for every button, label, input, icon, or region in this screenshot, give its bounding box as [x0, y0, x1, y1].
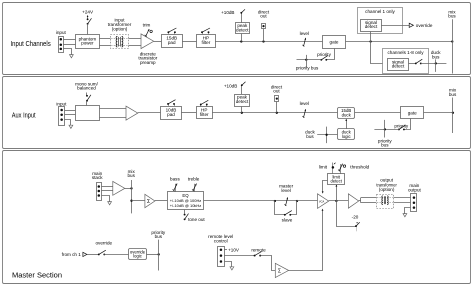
node priority bus junction aux	[384, 128, 386, 130]
svg-text:filter: filter	[200, 112, 209, 117]
svg-text:out: out	[260, 13, 267, 18]
wire J2 pin1 to sum block	[65, 110, 76, 112]
tone out switch	[184, 210, 186, 214]
op-amp discrete transistor preamp	[141, 34, 154, 49]
wire pad to HP filter	[182, 41, 197, 43]
ground input channel	[70, 55, 74, 58]
wire gate to mix bus	[346, 41, 453, 43]
svg-text:level: level	[300, 101, 309, 106]
wire tap to signal detect ch1	[370, 31, 372, 41]
wire J3 pin1 to stack amp	[101, 186, 112, 188]
wire tap to direct out	[263, 29, 265, 42]
node signal detect tap	[369, 40, 371, 42]
wire gate to mix bus aux	[424, 112, 453, 114]
wire HP filter to 15dB duck	[212, 112, 337, 114]
svg-text:bus: bus	[432, 55, 440, 60]
wire J2 pin2 to sum block	[65, 114, 76, 116]
wire aux amp to 10dB pad	[138, 112, 161, 114]
limit detect block	[328, 174, 345, 185]
ground remote	[230, 267, 234, 270]
svg-text:output: output	[408, 187, 421, 192]
wire stack amp to mix bus	[125, 188, 132, 190]
threshold pot	[340, 164, 342, 174]
svg-text:Aux Input: Aux Input	[12, 112, 36, 119]
op-amp VCA U11	[318, 194, 329, 209]
svg-text:override: override	[416, 23, 433, 28]
svg-text:channel 1 only: channel 1 only	[365, 9, 395, 14]
op-amp main stack amp	[113, 181, 125, 195]
wire override logic to priority bus	[146, 254, 158, 256]
wire +24V to phantom power	[87, 24, 89, 35]
wire priority switch to priority bus	[297, 59, 322, 61]
10dB pad block aux	[161, 107, 182, 120]
gate block channel	[323, 36, 346, 49]
svg-text:pad: pad	[167, 112, 175, 117]
wire tap to peak detect aux	[241, 106, 243, 113]
wire tap to direct out aux	[276, 101, 278, 112]
svg-text:+/-10dB @ 10kHz: +/-10dB @ 10kHz	[170, 203, 202, 208]
switch HP filter bypass	[202, 32, 204, 34]
svg-text:trim: trim	[143, 23, 151, 28]
priority bus channel	[306, 55, 308, 67]
peak detect block channel	[236, 23, 250, 34]
wire tap to limit detect	[336, 185, 338, 201]
sum block aux	[76, 106, 100, 121]
op-amp output buffer	[348, 194, 358, 208]
node priority bus junction	[305, 59, 307, 61]
node mix bus junction aux	[452, 112, 454, 114]
buffer override out	[409, 23, 413, 27]
override logic block	[129, 249, 147, 260]
svg-text:filter: filter	[202, 40, 211, 45]
peak detect block aux	[235, 95, 250, 107]
switch slave	[284, 214, 286, 216]
svg-text:pad: pad	[168, 40, 176, 45]
node direct out tap	[262, 40, 264, 42]
wire J5 pin1 +10V	[224, 249, 227, 251]
svg-text:bus: bus	[127, 173, 135, 178]
15dB duck block	[338, 108, 355, 119]
svg-text:gate: gate	[408, 111, 417, 116]
svg-text:+10dB: +10dB	[221, 10, 234, 15]
wire J2 pin3 to ground	[65, 120, 71, 126]
svg-text:input: input	[56, 30, 67, 35]
HP filter block	[197, 35, 216, 48]
wire priority switch to priority bus aux	[374, 129, 399, 131]
svg-text:slave: slave	[282, 217, 293, 222]
wire peak detect to +10dB switch	[241, 13, 243, 23]
svg-text:out: out	[273, 89, 280, 94]
aux input section frame	[3, 77, 471, 149]
svg-text:logic: logic	[133, 254, 142, 259]
wire signal detect to duck switch	[409, 63, 416, 65]
svg-text:duck: duck	[342, 112, 352, 117]
ground main output	[403, 214, 407, 217]
svg-text:threshold: threshold	[350, 164, 369, 169]
svg-text:level: level	[300, 31, 309, 36]
svg-text:bus: bus	[449, 92, 457, 97]
svg-text:detect: detect	[236, 27, 249, 32]
svg-text:detect: detect	[236, 99, 249, 104]
svg-text:input: input	[56, 102, 67, 107]
master section frame	[3, 151, 471, 284]
svg-text:detect: detect	[365, 24, 378, 29]
wire remote amp to VCA control	[289, 210, 323, 271]
svg-text:bus: bus	[306, 134, 314, 139]
wire peak detect to +10dB switch aux	[241, 85, 243, 94]
svg-text:Σ: Σ	[147, 199, 150, 205]
node duck bus junction aux	[325, 134, 327, 136]
priority bus aux	[384, 120, 386, 138]
svg-text:+10dB: +10dB	[224, 84, 237, 89]
node mix bus to sum amp junction	[130, 200, 132, 202]
channels 1-8 only box	[383, 49, 429, 74]
switch 15dB pad bypass	[168, 32, 170, 34]
svg-text:power: power	[81, 41, 94, 46]
svg-text:priority bus: priority bus	[296, 66, 319, 71]
signal detect block ch1	[361, 20, 382, 32]
wire slave bypass loop	[275, 201, 285, 215]
wire from ch1 to override switch	[87, 254, 99, 256]
wire signal detect to override buffer	[381, 25, 409, 27]
phantom power block	[76, 35, 100, 49]
wire tap to -20 switch	[337, 201, 357, 227]
wire J3 pin3 to ground	[102, 196, 110, 202]
svg-text:level: level	[281, 188, 290, 193]
svg-text:Σ: Σ	[278, 269, 281, 275]
svg-text:logic: logic	[342, 134, 352, 139]
svg-text:VCA: VCA	[319, 199, 325, 203]
svg-text:detect: detect	[330, 179, 342, 184]
wire J3 pin2 to stack amp	[101, 190, 112, 192]
node master level right junction	[296, 200, 298, 202]
wire phantom to input transformer (hot)	[99, 38, 110, 40]
input channels section frame	[3, 3, 471, 75]
signal detect block ch1-8	[388, 59, 409, 71]
node duck bus junction	[435, 62, 437, 64]
wire limit detect to VCA control	[323, 181, 328, 193]
switch 10dB pad bypass aux	[168, 104, 170, 106]
wire switch to sum block	[86, 101, 88, 106]
svg-text:bus: bus	[155, 234, 163, 239]
gate block aux	[401, 107, 424, 119]
wire sum amp to EQ	[155, 200, 167, 202]
ground main stack	[108, 202, 112, 205]
switch HP filter bypass aux	[200, 105, 202, 107]
svg-text:(option): (option)	[112, 27, 128, 32]
svg-text:priority: priority	[317, 52, 331, 57]
wire split to transformer (cold)	[361, 202, 376, 204]
wire transformer to main output (cold)	[394, 202, 411, 204]
wire tap to signal detect ch1-8	[371, 42, 388, 64]
svg-text:preamp: preamp	[140, 60, 156, 65]
duck logic block	[338, 129, 355, 140]
svg-text:control: control	[214, 239, 228, 244]
svg-text:Master Section: Master Section	[12, 273, 62, 280]
svg-text:treble: treble	[188, 176, 200, 181]
wire EQ to master level	[204, 200, 297, 202]
wire 15dB duck to gate aux	[355, 112, 401, 114]
svg-text:(option): (option)	[379, 187, 395, 192]
node aux direct out tap	[276, 112, 278, 114]
svg-text:tone out: tone out	[188, 217, 205, 222]
wire mix bus to sum amp	[132, 200, 145, 202]
node mix bus stack junction	[130, 187, 132, 189]
svg-text:balanced: balanced	[77, 86, 96, 91]
wire J1 pin3 to ground	[64, 49, 72, 55]
wire sum block to aux amp (cold)	[99, 117, 126, 119]
svg-text:Input Channels: Input Channels	[11, 41, 52, 48]
op-amp aux input amp	[126, 106, 138, 120]
EQ block	[168, 192, 204, 210]
wire phantom to input transformer (cold)	[99, 45, 110, 47]
wire J5 pin2 to remote switch	[224, 255, 254, 257]
wire tap to peak detect	[241, 34, 243, 42]
svg-text:+24V: +24V	[82, 10, 94, 15]
wire buffer to output transformer split	[360, 198, 362, 203]
wire transformer to preamp (hot)	[129, 38, 142, 40]
wire transformer to main output (hot)	[394, 197, 411, 199]
wire J1 pin1 to phantom power	[63, 39, 75, 41]
svg-text:bus: bus	[381, 143, 389, 148]
wire J1 pin2 to phantom power	[63, 44, 75, 46]
wire pad to HP filter aux	[181, 112, 196, 114]
switch +24V phantom	[87, 18, 89, 20]
wire remote switch to remote amp	[261, 256, 276, 271]
wire J5 pin3 to ground	[225, 262, 232, 267]
svg-text:stack: stack	[92, 175, 103, 180]
svg-text:detect: detect	[392, 64, 405, 69]
svg-text:limit: limit	[319, 164, 328, 169]
wire gate to priority switch aux	[404, 119, 411, 130]
wire preamp to 15dB pad	[154, 41, 162, 43]
svg-text:-20: -20	[352, 214, 359, 219]
wire sum block to aux amp (hot)	[99, 108, 126, 110]
svg-text:from ch 1: from ch 1	[62, 252, 82, 257]
node limit detect tap	[335, 200, 337, 202]
svg-text:bass: bass	[170, 176, 180, 181]
wire gate to priority switch	[327, 49, 335, 60]
svg-text:bus: bus	[448, 14, 456, 19]
switch duck ch1-8	[415, 62, 417, 64]
svg-text:gate: gate	[330, 40, 339, 45]
svg-text:override: override	[95, 240, 112, 245]
HP filter block aux	[197, 107, 213, 119]
svg-text:channels 1-8 only: channels 1-8 only	[387, 50, 424, 55]
wire master level to VCA	[297, 200, 318, 202]
wire HP filter to gate	[215, 41, 323, 43]
15dB pad block	[162, 35, 183, 48]
node master level left junction	[274, 200, 276, 202]
node priority bus junction master	[158, 253, 160, 255]
wire duck logic to 15dB duck	[346, 120, 348, 129]
wire transformer to preamp (cold)	[129, 45, 142, 47]
wire J4 pin3 to ground	[405, 208, 411, 214]
node mix bus junction channel	[451, 40, 453, 42]
wire override switch to override logic	[104, 254, 128, 256]
svg-text:+10V: +10V	[228, 248, 240, 253]
op-amp mix sum amp U10	[145, 194, 155, 207]
node aux peak detect tap	[241, 112, 243, 114]
wire split to transformer (hot)	[361, 197, 376, 199]
wire VCA to output buffer	[329, 200, 349, 202]
channel 1 only box	[358, 8, 403, 34]
wire duck switch to duck bus	[421, 63, 447, 65]
ground aux input	[69, 125, 73, 128]
node peak detect tap	[240, 40, 242, 42]
svg-text:remote: remote	[251, 248, 266, 253]
op-amp remote sum amp U12	[275, 263, 288, 277]
